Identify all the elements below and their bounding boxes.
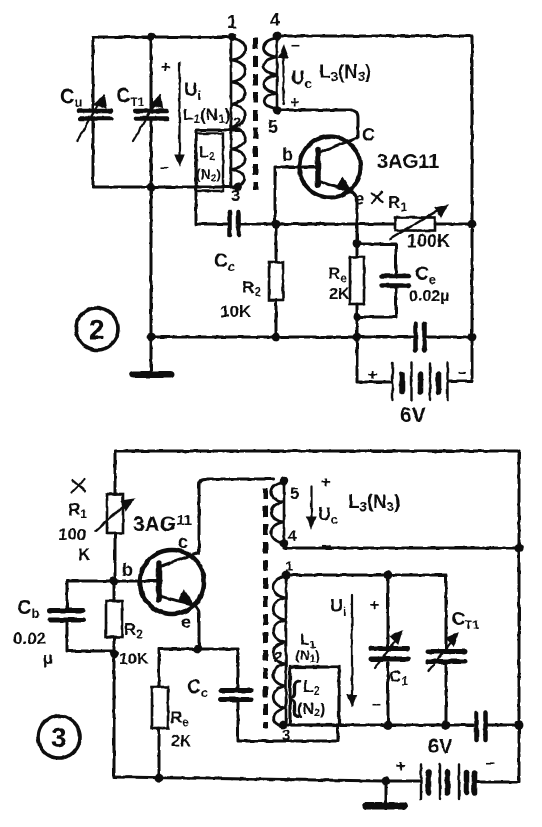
label 0.02 (13, 629, 46, 648)
label 0.02u (409, 288, 449, 305)
battery 6V circuit 2 (357, 337, 391, 382)
node: battery/ground junction dot (382, 777, 391, 786)
svg-text:CT1: CT1 (116, 85, 145, 109)
svg-text:R1: R1 (68, 500, 87, 521)
label + near C1 (370, 597, 379, 614)
svg-text:–: – (458, 364, 467, 381)
node: emitter junction dot (353, 240, 362, 249)
wire: base line circuit 3 (67, 580, 159, 583)
svg-text:5: 5 (290, 484, 299, 503)
wire: ground rail circuit 2 (151, 336, 413, 339)
label b (282, 145, 293, 165)
label L1(N1) winding (183, 105, 230, 126)
label 6V circuit 2 (400, 404, 426, 427)
capacitor Ce circuit 2 (357, 244, 396, 274)
wire: CT1 branch vertical lower to tank bottom (150, 120, 153, 187)
svg-text:10K: 10K (220, 302, 252, 321)
svg-text:1: 1 (285, 558, 293, 575)
svg-text:+: + (290, 94, 299, 111)
wire: tap 2 to Cc (196, 130, 240, 224)
svg-text:Re: Re (328, 264, 347, 285)
label C collector (362, 125, 375, 145)
svg-text:0.02: 0.02 (13, 629, 46, 648)
label Ui (184, 80, 201, 103)
label (N2) (196, 166, 221, 184)
wire: R1 to right rail (435, 223, 472, 226)
wire: CT1 branch vertical upper (150, 37, 153, 109)
wire: tank bottom rail circuit 2 (93, 186, 239, 189)
svg-text:100K: 100K (407, 231, 450, 251)
svg-text:Ui: Ui (330, 596, 347, 619)
ground symbol circuit 3 (385, 781, 388, 803)
ground symbol circuit 2 (150, 337, 153, 371)
wire: left branch (Cu) vertical (92, 37, 95, 187)
svg-text:L2: L2 (303, 677, 320, 698)
voltage arrow Uc circuit 3 (321, 474, 330, 491)
wire: top rail of tank circuit 2 (93, 36, 233, 39)
svg-text:c: c (178, 532, 188, 552)
node: Re bottom dot (154, 773, 163, 782)
battery 6V circuit 3 (386, 780, 419, 783)
wire: terminal 1 rail to tank caps (286, 574, 446, 577)
voltage arrow Uc with - and + (291, 37, 300, 54)
label terminal 1 circuit 3 (285, 558, 293, 575)
resistor Re circuit 2 (356, 244, 359, 257)
inductor L1+L2 winding circuit 3 (terminals 1-2-3) (285, 575, 288, 727)
wire: terminal 4 to top right corner and right vertical rail (277, 36, 472, 378)
svg-text:2: 2 (233, 114, 241, 131)
svg-text:3: 3 (282, 727, 290, 744)
label Cb (17, 597, 39, 621)
label + battery 3 (396, 758, 405, 775)
capacitor CT1 (trimmer, variable) plates (135, 111, 167, 119)
node: terminal 5 (273, 106, 282, 115)
node: base junction dot (272, 220, 281, 229)
resistor R1 (variable 100K) box (395, 218, 435, 231)
voltage arrow Ui with + and - (161, 59, 170, 76)
svg-text:3: 3 (51, 722, 67, 753)
inductor L3 winding circuit 3 (terminals 5-4) (283, 481, 286, 543)
node: junction dot CT1 top (147, 33, 155, 41)
label Uc (291, 68, 312, 91)
svg-text:3: 3 (231, 188, 240, 205)
label u (43, 649, 53, 668)
svg-text:100: 100 (58, 525, 86, 544)
wire: terminal 4 to right rail (284, 547, 519, 550)
label - battery 2 (458, 364, 467, 381)
svg-text:–: – (291, 37, 300, 54)
svg-text:b: b (122, 560, 133, 580)
node dots on ground rail (272, 333, 281, 342)
node: terminal 3 circuit 3 (279, 721, 288, 730)
svg-text:0.02µ: 0.02µ (409, 288, 449, 305)
svg-text:Uc: Uc (318, 504, 338, 527)
inductor L3 secondary winding (terminals 4-5) (276, 37, 279, 109)
svg-text:4: 4 (270, 10, 280, 30)
label terminal 5 circuit 3 (290, 484, 299, 503)
capacitor Cu arrow (77, 95, 104, 141)
svg-text:(N1): (N1) (295, 647, 320, 665)
label 3AG11 circuit 3 (133, 512, 192, 536)
label R2 circuit 3 (124, 620, 143, 641)
wire: top rail circuit 3 (115, 450, 519, 453)
node: dot terminal4 wire at right rail (514, 543, 523, 552)
svg-text:–: – (372, 696, 381, 713)
label terminal 4 circuit 3 (288, 528, 297, 545)
svg-text:6V: 6V (400, 404, 426, 427)
capacitor CT1 arrow (133, 95, 160, 141)
node: emitter junction dot circuit 3 (194, 645, 203, 654)
label 3AG11 (377, 151, 439, 173)
label L1 circuit 3 (300, 632, 316, 651)
svg-text:10K: 10K (119, 651, 149, 668)
box around L2(N2) label (197, 134, 224, 192)
label terminal 3 circuit 3 (282, 727, 290, 744)
brace left of L2 (288, 674, 301, 718)
label R2 (242, 278, 261, 299)
label terminal 1 (227, 12, 237, 32)
svg-text:Cb: Cb (17, 597, 39, 621)
wire: base line continues to R1 (241, 223, 395, 226)
circled figure number 3 (38, 716, 80, 758)
transformer core (dashed) circuit 2 (253, 38, 258, 190)
label terminal 4 (270, 10, 280, 30)
label 100 (58, 525, 86, 544)
capacitor C1 circuit 3 (variable) (387, 575, 390, 646)
label Cu (60, 86, 82, 110)
svg-text:2K: 2K (171, 733, 192, 750)
label L3(N3) (319, 62, 371, 84)
capacitor bypass in rail circuit 2 (416, 324, 425, 350)
svg-text:–: – (322, 537, 331, 554)
label + battery 2 (368, 367, 377, 384)
svg-text:K: K (78, 545, 91, 564)
svg-text:b: b (282, 145, 293, 165)
svg-text:R1: R1 (388, 193, 407, 214)
label (N1) circuit 3 (295, 647, 320, 665)
svg-text:+: + (396, 758, 405, 775)
label L3(N3) circuit 3 (348, 492, 400, 514)
node: junction dot CT1 bottom (147, 183, 155, 191)
svg-text:Ce: Ce (415, 264, 436, 287)
label C1 (389, 667, 408, 688)
capacitor Cc circuit 3 (237, 649, 240, 688)
wire: emitter lead down (352, 192, 357, 244)
transistor Q1 3AG11 circuit 2 (300, 137, 361, 198)
svg-text:–: – (486, 755, 495, 772)
svg-text:L3(N3): L3(N3) (348, 492, 400, 514)
svg-text:Ui: Ui (184, 80, 201, 103)
svg-text:4: 4 (288, 528, 297, 545)
resistor R2 circuit 2 (275, 224, 278, 262)
label L2 circuit 3 (303, 677, 320, 698)
transformer core (dashed) circuit 3 (263, 488, 268, 728)
transistor Q2 3AG11 circuit 3 (140, 550, 204, 614)
node: terminal 5 circuit 3 (280, 477, 288, 485)
svg-text:C1: C1 (389, 667, 408, 688)
node: terminal 1 circuit 3 (282, 571, 291, 580)
capacitor Cc circuit 2 plates (230, 212, 239, 235)
svg-text:R2: R2 (242, 278, 261, 299)
node: terminal 4 (273, 32, 282, 41)
capacitor Cb circuit 3 (66, 581, 69, 608)
label tap 2 (233, 114, 241, 131)
wire: left vertical down to bottom rail circuit 3 (114, 654, 386, 781)
wire: lower rail circuit 3 with series capacitor (283, 724, 473, 727)
label 2K circuit 3 (171, 733, 192, 750)
svg-text:C: C (362, 125, 375, 145)
label 10K (220, 302, 252, 321)
svg-text:e: e (354, 189, 364, 209)
svg-text:3AG11: 3AG11 (377, 151, 439, 173)
circled figure number 2 (76, 308, 118, 350)
svg-text:5: 5 (268, 117, 278, 137)
wire: terminal 5 to collector (277, 110, 358, 137)
label 100K (407, 231, 450, 251)
svg-text:Uc: Uc (291, 68, 312, 91)
node: terminal 1 top of winding (228, 33, 236, 41)
wire: base lead (275, 167, 318, 224)
svg-text:(N2): (N2) (297, 701, 325, 719)
svg-text:(N2): (N2) (196, 166, 221, 184)
label c collector circuit 3 (178, 532, 188, 552)
label Re circuit 3 (170, 708, 189, 729)
label CT1 circuit 3 (452, 609, 479, 632)
wire: collector up to terminal 5 (199, 479, 273, 553)
svg-text:+: + (161, 59, 170, 76)
svg-text:–: – (160, 159, 169, 176)
capacitor CT1 circuit 3 (trimmer) (445, 575, 448, 649)
resistor Re circuit 3 (158, 649, 161, 687)
node: R2 bottom dot (110, 650, 119, 659)
svg-text:L3(N3): L3(N3) (319, 62, 371, 84)
svg-text:Cc: Cc (214, 251, 235, 274)
label terminal 3 (231, 188, 240, 205)
box around L2(N2) circuit 3 (290, 667, 339, 725)
svg-text:Re: Re (170, 708, 189, 729)
node: dot at right rail / R1 (468, 220, 477, 229)
svg-text:L2: L2 (199, 144, 215, 163)
wire: from tank bottom down to ground rail (150, 187, 153, 337)
wire: emitter lead down circuit 3 (194, 605, 199, 649)
svg-text:2: 2 (274, 649, 282, 666)
label tap 2 circuit 3 (274, 649, 282, 666)
label 10K circuit 3 (119, 651, 149, 668)
label 6V circuit 3 (428, 736, 453, 758)
resistor R1 arrow (390, 208, 442, 239)
label x (select) mark (372, 192, 382, 203)
svg-text:2K: 2K (329, 286, 350, 303)
svg-text:6V: 6V (428, 736, 453, 758)
label Cc (214, 251, 235, 274)
label - battery 3 (486, 755, 495, 772)
svg-text:µ: µ (43, 649, 53, 668)
label CT1 (116, 85, 145, 109)
inductor L1+L2 primary winding (terminals 1-2-3) (230, 38, 233, 187)
node: terminal 4 circuit 3 (280, 539, 288, 547)
voltage arrow Ui circuit 3 (330, 596, 347, 619)
label L2 (199, 144, 215, 163)
label 2K (329, 286, 350, 303)
wire: right vertical rail circuit 3 (518, 451, 521, 782)
label (N2) circuit 3 (297, 701, 325, 719)
svg-text:+: + (370, 597, 379, 614)
label b circuit 3 (122, 560, 133, 580)
svg-text:e: e (181, 612, 191, 632)
svg-text:Cc: Cc (187, 677, 208, 700)
label R1 (388, 193, 407, 214)
node: terminal 3 bottom of winding (234, 183, 243, 192)
node dots on lower rail (384, 721, 393, 730)
label Re (328, 264, 347, 285)
resistor R2 circuit 3 (113, 581, 116, 601)
capacitor bypass in rail circuit 3 (477, 713, 486, 740)
label R1 circuit 3 (68, 500, 87, 521)
label x mark circuit 3 (72, 479, 85, 492)
capacitor Cu (variable) plates (79, 111, 111, 119)
svg-text:+: + (368, 367, 377, 384)
label - near C1 (372, 696, 381, 713)
node: dot C1 top (384, 571, 393, 580)
svg-text:R2: R2 (124, 620, 143, 641)
label e emitter circuit 3 (181, 612, 191, 632)
svg-text:L1(N1): L1(N1) (183, 105, 230, 126)
svg-text:Cu: Cu (60, 86, 82, 110)
svg-text:+: + (321, 474, 330, 491)
label Cc circuit 3 (187, 677, 208, 700)
node: base junction dot circuit 3 (110, 577, 119, 586)
resistor R1 circuit 3 (variable 100K) (114, 451, 117, 494)
label Uc circuit 3 (318, 504, 338, 527)
label e emitter (354, 189, 364, 209)
wire: emitter node to Re and Cc (159, 648, 238, 651)
label Ce (415, 264, 436, 287)
svg-text:2: 2 (89, 314, 105, 345)
wire: base line with Cc and R1 (196, 223, 227, 226)
svg-text:1: 1 (227, 12, 237, 32)
svg-text:CT1: CT1 (452, 609, 479, 632)
label terminal 5 (268, 117, 278, 137)
label K (78, 545, 91, 564)
